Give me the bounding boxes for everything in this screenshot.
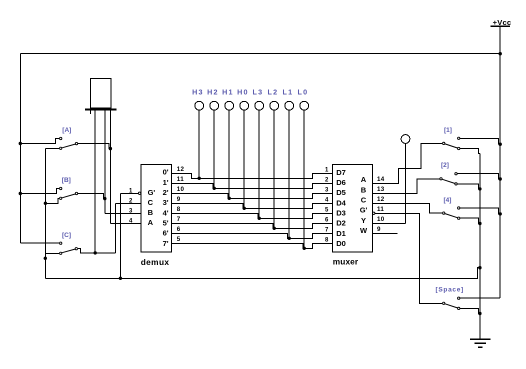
switch Space upper throw terminal (458, 297, 460, 299)
switch 1 lower throw terminal (458, 147, 460, 149)
switch 2 pole terminal (440, 178, 442, 180)
switch Space pole terminal (443, 302, 445, 304)
svg-text:[B]: [B] (62, 177, 71, 184)
wire: switch 4 lower throw to ground column (460, 218, 480, 223)
svg-text:[2]: [2] (441, 162, 449, 169)
wire: switch B lower throw to chain (45, 198, 59, 203)
svg-text:9: 9 (177, 196, 181, 203)
junction: lamp node row 1 (213, 187, 216, 190)
switch 1 lever (445, 144, 457, 148)
svg-text:muxer: muxer (333, 257, 359, 267)
junction: Vcc rail at switch 2 (499, 177, 502, 180)
svg-text:H1: H1 (222, 87, 234, 96)
wire: switch A lower throw to chain (45, 147, 59, 149)
power symbol +Vcc (491, 25, 511, 27)
switch Space lower throw terminal (458, 307, 460, 309)
svg-text:A: A (148, 218, 154, 227)
lamp L1 (285, 101, 294, 110)
wire: demux 4' to mux D3 (172, 213, 333, 218)
switch 4 lever (445, 214, 457, 218)
svg-text:[4]: [4] (444, 197, 452, 204)
wire: demux pin 2 C from switch C (116, 202, 142, 204)
switch C lever (62, 249, 75, 253)
lamp H0 (240, 101, 249, 110)
svg-text:11: 11 (177, 176, 184, 183)
svg-text:D7: D7 (336, 168, 346, 177)
junction: demux enable on bus (119, 277, 122, 280)
junction: node C (94, 251, 97, 254)
svg-text:D6: D6 (336, 178, 346, 187)
svg-text:0': 0' (163, 168, 169, 177)
svg-text:C: C (361, 195, 367, 204)
junction: lamp node row 7 (303, 247, 306, 250)
svg-text:8: 8 (177, 206, 181, 213)
wire: mux pin 9 W stub (373, 232, 398, 234)
wire: lamp H3 lead (198, 110, 200, 178)
junction: ground column at switch Space (478, 312, 481, 315)
junction: ground column at switch 2 (478, 187, 481, 190)
wire: switch 1 upper throw to Vcc rail (460, 138, 500, 144)
svg-text:D4: D4 (336, 198, 346, 207)
wire: lower-throw chain (44, 148, 46, 278)
svg-text:D1: D1 (336, 229, 346, 238)
svg-text:D0: D0 (336, 239, 346, 248)
wire: mux pin 14 A to switch 1 (373, 143, 443, 183)
wire: switch A common to node A (78, 144, 110, 149)
junction: rail at switch B (19, 192, 22, 195)
svg-text:L0: L0 (298, 87, 309, 96)
lamp H2 (210, 101, 219, 110)
ground symbol (470, 338, 491, 340)
demux pin 1 bubble (138, 192, 140, 194)
wire: switch 2 upper throw to Vcc rail (458, 174, 501, 179)
switch 2 upper throw terminal (455, 173, 457, 175)
wire: lamp H2 lead (213, 110, 215, 188)
svg-text:A: A (361, 175, 367, 184)
svg-text:9: 9 (377, 226, 381, 233)
svg-text:14: 14 (377, 176, 385, 183)
switch 1 upper throw terminal (458, 137, 460, 139)
svg-text:L3: L3 (253, 87, 264, 96)
junction: node B (103, 197, 106, 200)
wire: rail to switch B upper throw (20, 189, 59, 194)
lamp L2 (270, 101, 279, 110)
muxer U2 body (333, 165, 373, 253)
junction: Vcc tap on top bus (499, 52, 502, 55)
wire: demux pin 3 B (105, 212, 141, 214)
svg-text:1': 1' (163, 178, 169, 187)
switch B lower throw terminal (60, 197, 62, 199)
wire: switch 1 lower throw to ground column (460, 149, 480, 154)
svg-text:Y: Y (361, 216, 366, 225)
wire: lamp L1 lead (288, 110, 290, 238)
mux pin 11 bubble (373, 212, 375, 214)
wire: buzzer leg to node A (109, 111, 111, 224)
wire: rail to switch A upper throw (20, 139, 59, 144)
wire: demux pin 1 G' to enable bus (120, 192, 138, 194)
switch A common terminal (75, 142, 77, 144)
lamp L0 (300, 101, 309, 110)
svg-text:12: 12 (377, 196, 385, 203)
svg-text:5: 5 (177, 236, 181, 243)
wire: lamp H1 lead (228, 110, 230, 198)
switch B upper throw terminal (60, 187, 62, 189)
switch C common terminal (75, 248, 77, 250)
lamp H1 (225, 101, 234, 110)
wire: lamp H0 lead (243, 110, 245, 208)
wire: demux 6' to mux D1 (172, 233, 333, 238)
junction: Vcc rail at switch 4 (499, 212, 502, 215)
switch 4 upper throw terminal (458, 207, 460, 209)
junction: lamp node row 5 (273, 227, 276, 230)
wire: switch Space upper throw to Vcc rail (460, 297, 500, 299)
svg-text:13: 13 (377, 186, 385, 193)
junction: lamp node row 3 (243, 207, 246, 210)
svg-text:L1: L1 (283, 87, 294, 96)
svg-text:6': 6' (163, 229, 169, 238)
svg-text:[Space]: [Space] (436, 287, 464, 294)
wire: switch C common to node C (78, 249, 116, 253)
wire: mux pin 12 C to switch 4 (373, 203, 443, 213)
wire: lamp L0 lead (303, 110, 305, 248)
svg-text:G': G' (148, 188, 156, 197)
svg-text:10: 10 (177, 186, 185, 193)
svg-text:D5: D5 (336, 188, 346, 197)
svg-text:7: 7 (177, 216, 181, 223)
wire: lamp L3 lead (258, 110, 260, 218)
svg-text:7': 7' (163, 239, 169, 248)
wire: buzzer stub pin (90, 111, 92, 114)
junction: ground chain at switch B (44, 202, 47, 205)
switch A lower throw terminal (60, 147, 62, 149)
switch C upper throw terminal (60, 242, 62, 244)
svg-text:[1]: [1] (444, 127, 452, 134)
wire: switch B common to node B (78, 194, 105, 199)
svg-text:+Vcc: +Vcc (493, 18, 512, 27)
svg-text:W: W (360, 226, 368, 235)
wire: demux 0' to mux D7 (172, 173, 333, 178)
wire: demux 5' to mux D2 (172, 223, 333, 228)
junction: ground chain at switch C (44, 257, 47, 260)
junction: bus to ground column (478, 266, 481, 269)
lamp on mux output Y (401, 135, 410, 144)
junction: lamp node row 2 (228, 197, 231, 200)
switch A upper throw terminal (60, 137, 62, 139)
switch 4 lower throw terminal (458, 217, 460, 219)
wire: demux 7' to mux D0 (172, 243, 333, 248)
wire: switch C lower throw to chain (45, 252, 59, 254)
svg-text:demux: demux (141, 257, 170, 267)
wire: demux pin 4 A (110, 222, 141, 224)
svg-text:D3: D3 (336, 209, 346, 218)
svg-text:L2: L2 (268, 87, 279, 96)
wire: rail to switch C upper throw (20, 242, 59, 244)
buzzer LS1 (91, 78, 112, 108)
junction: rail at switch A (19, 142, 22, 145)
wire: switch Space lower throw to ground column (460, 308, 480, 313)
svg-text:H3: H3 (192, 87, 204, 96)
wire: lamp L2 lead (273, 110, 275, 228)
wire: demux 2' to mux D5 (172, 193, 333, 198)
switch B common terminal (75, 192, 77, 194)
wire: switch 2 lower throw to ground column (458, 184, 480, 189)
switch 2 lower throw terminal (455, 183, 457, 185)
svg-text:[A]: [A] (62, 127, 71, 134)
junction: lamp node row 0 (198, 177, 201, 180)
switch A lever (62, 144, 75, 148)
svg-text:4': 4' (163, 208, 169, 217)
switch Space lever (445, 304, 457, 308)
wire: buzzer leg to node C (94, 111, 96, 253)
switch B lever (62, 194, 75, 198)
switch C lower throw terminal (60, 252, 62, 254)
switch 1 pole terminal (443, 142, 445, 144)
svg-text:B: B (361, 185, 367, 194)
wire: mux pin 10 Y to lamp (373, 222, 406, 224)
svg-text:3': 3' (163, 198, 169, 207)
wire: mux pin 13 B to switch 2 (373, 179, 440, 194)
wire: demux 3' to mux D4 (172, 203, 333, 208)
svg-text:5': 5' (163, 218, 169, 227)
junction: Vcc rail at switch 1 (499, 143, 502, 146)
svg-text:D2: D2 (336, 219, 346, 228)
svg-text:B: B (148, 208, 154, 217)
svg-text:6: 6 (177, 226, 181, 233)
svg-text:[C]: [C] (62, 232, 71, 239)
lamp H3 (195, 101, 204, 110)
junction: lamp node row 6 (288, 237, 291, 240)
junction: lamp node row 4 (258, 217, 261, 220)
svg-text:12: 12 (177, 166, 185, 173)
junction: node A (109, 147, 112, 150)
lamp L3 (255, 101, 264, 110)
wire: bottom enable bus (45, 268, 480, 279)
svg-text:11: 11 (377, 206, 384, 213)
svg-text:H2: H2 (207, 87, 219, 96)
switch 4 pole terminal (443, 212, 445, 214)
wire: demux 1' to mux D6 (172, 183, 333, 188)
wire: switch 4 upper throw to Vcc rail (460, 208, 500, 214)
svg-text:2': 2' (163, 188, 169, 197)
wire: left Vcc rail (19, 54, 21, 244)
wire: top Vcc bus (20, 53, 500, 55)
svg-text:10: 10 (377, 216, 385, 223)
svg-text:H0: H0 (237, 87, 249, 96)
svg-text:C: C (148, 198, 154, 207)
wire: buzzer leg to node B (104, 111, 106, 214)
wire: ground column (479, 154, 481, 340)
wire: right Vcc rail (499, 54, 501, 299)
wire: mux pin 11 G' to switch Space (375, 213, 442, 303)
demux U1 body (141, 164, 171, 252)
svg-text:G': G' (360, 206, 368, 215)
junction: ground column at switch 4 (478, 222, 481, 225)
switch 2 lever (442, 179, 454, 183)
